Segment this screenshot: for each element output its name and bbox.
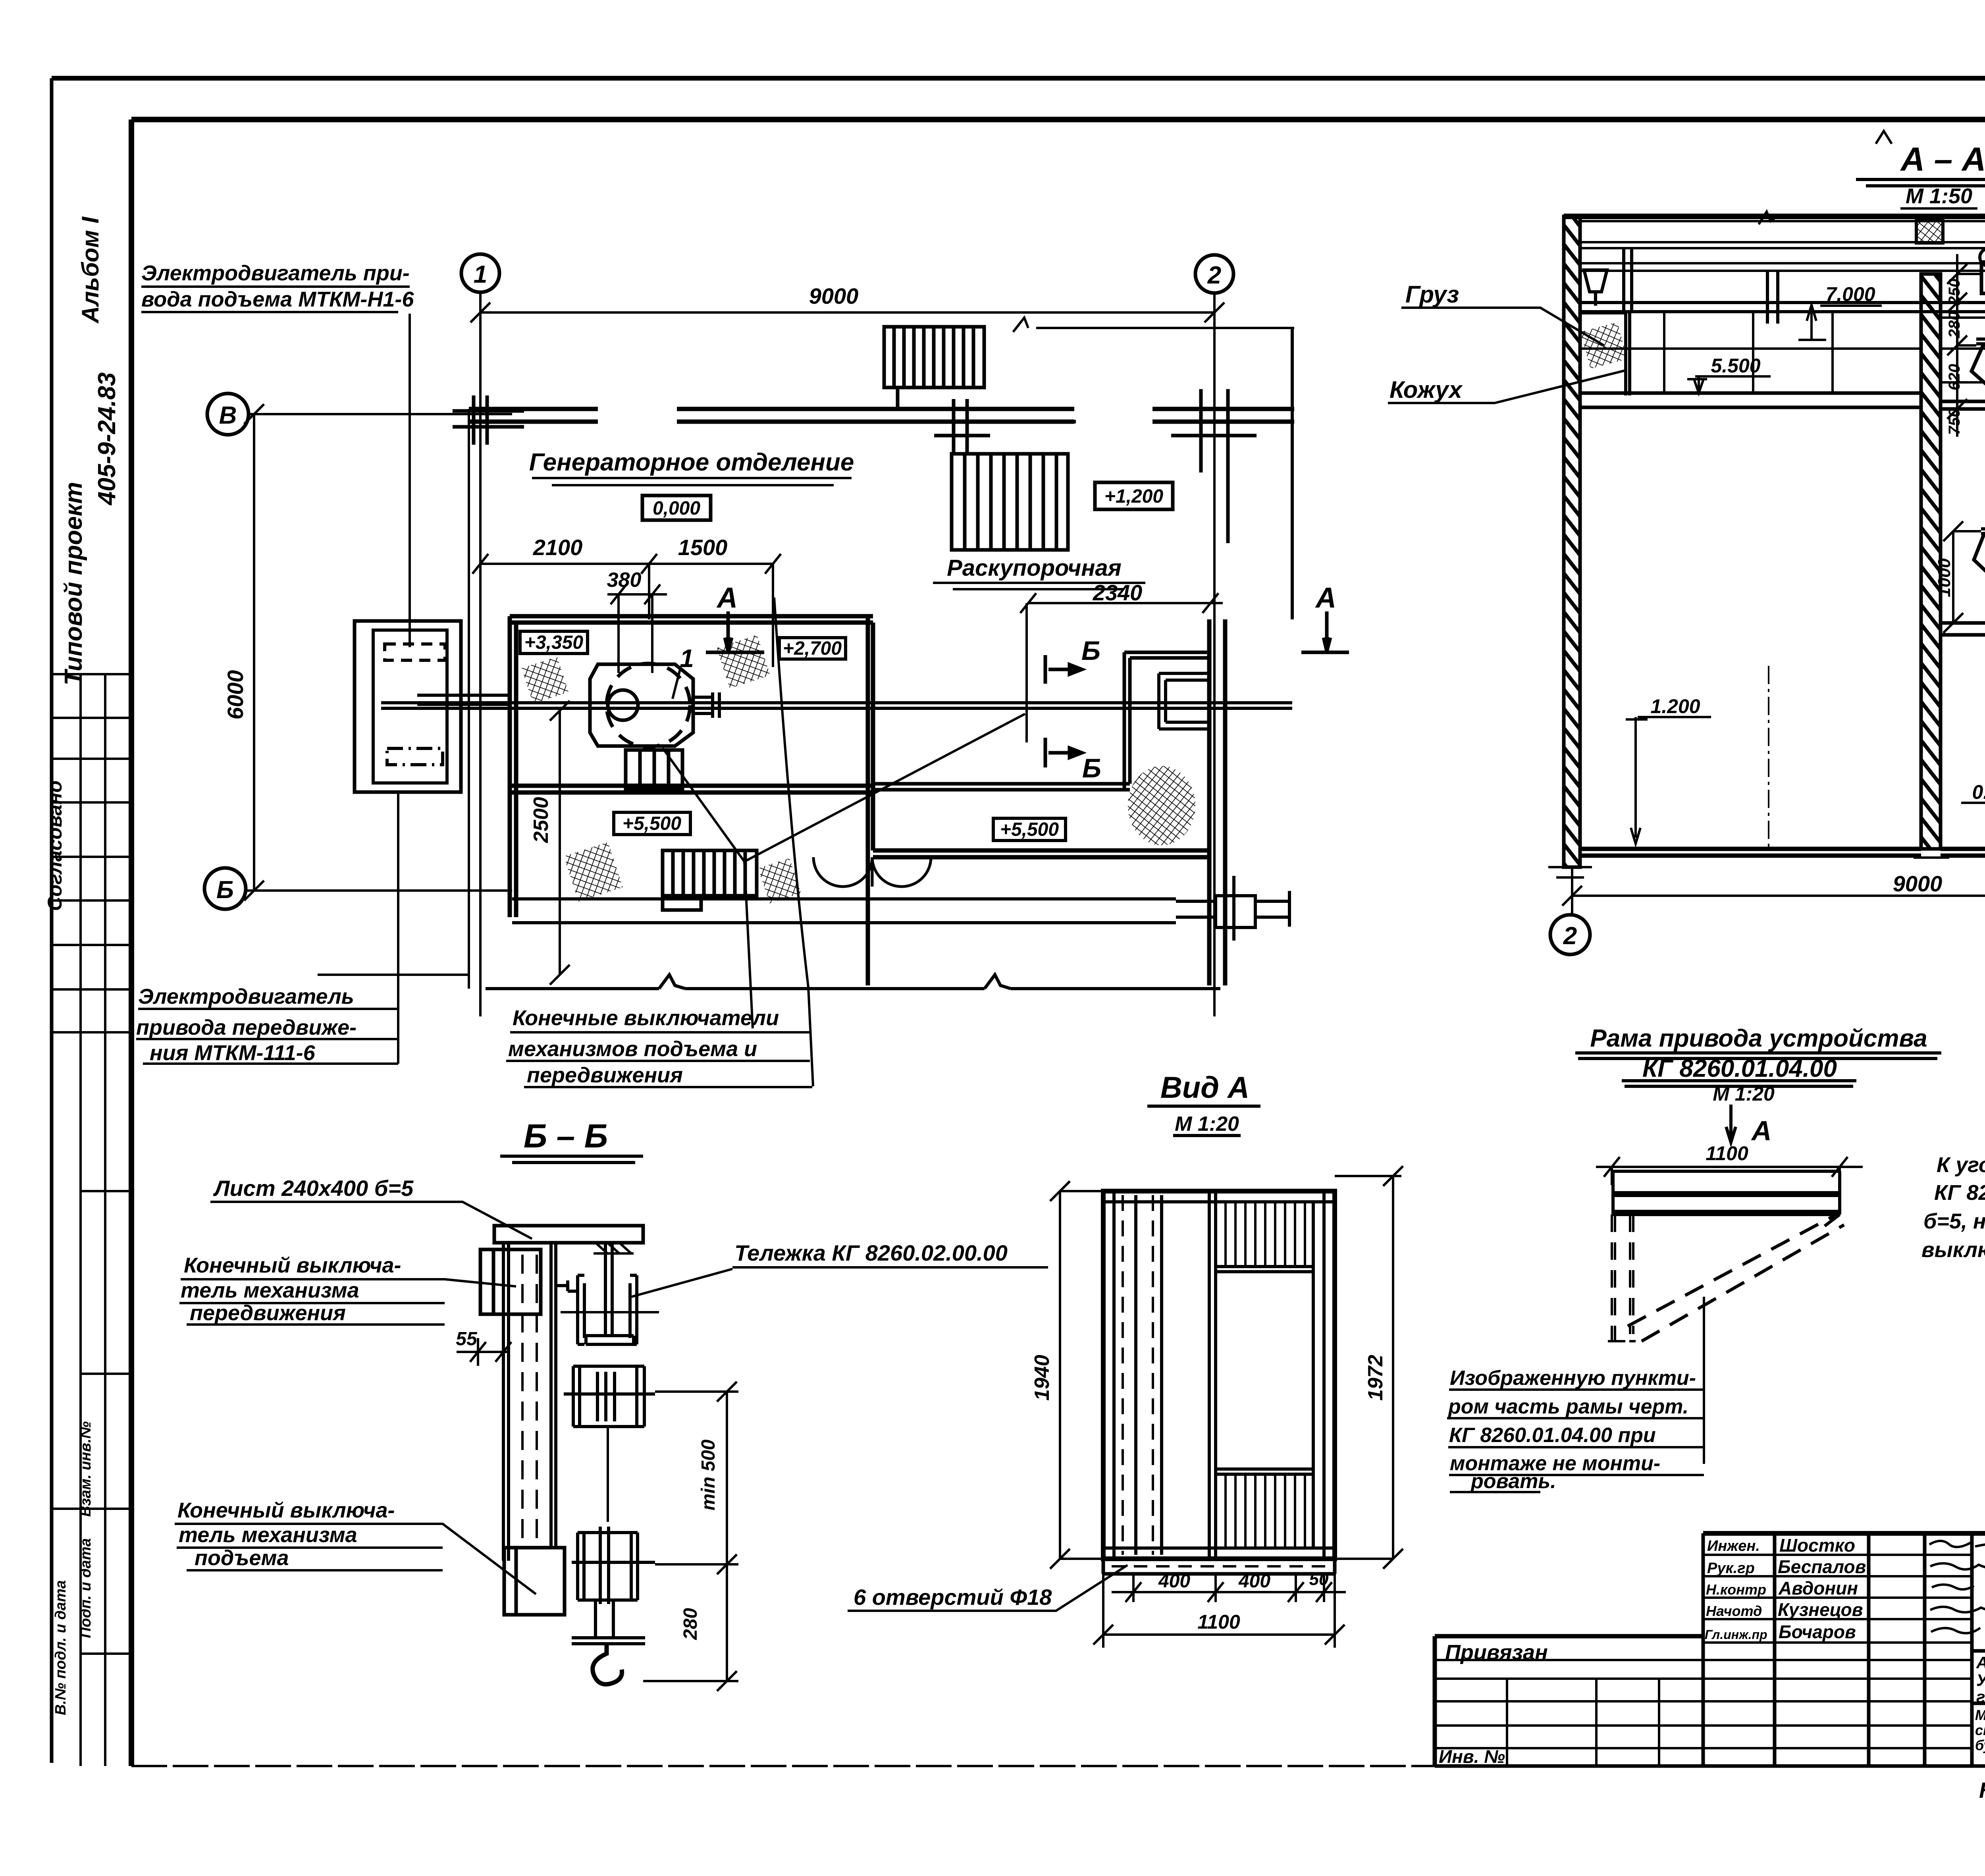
slab 5.500 <box>1580 393 1985 409</box>
generator room right wall <box>868 616 873 985</box>
signature squiggle 2 <box>1930 1563 1985 1569</box>
svg-text:Типовой проект: Типовой проект <box>60 482 87 686</box>
pipe through wall symbol <box>1176 876 1289 941</box>
svg-text:280: 280 <box>680 1608 701 1640</box>
bunker flange <box>1976 339 1985 344</box>
column symbol mid top wall <box>934 399 1076 453</box>
grid circle 1 <box>461 254 499 292</box>
hopper2 body <box>1974 534 1985 619</box>
svg-text:1100: 1100 <box>1197 1611 1240 1633</box>
roof pad over middle wall <box>1916 219 1943 243</box>
bottom plate dashes <box>1112 1565 1330 1568</box>
lower empty rows <box>1435 1660 1972 1748</box>
svg-text:Б – Б: Б – Б <box>524 1117 608 1155</box>
svg-text:Тележка КГ 8260.02.00.00: Тележка КГ 8260.02.00.00 <box>734 1240 1008 1265</box>
gruz box <box>1580 313 1630 395</box>
rama title underlines <box>1575 1053 1941 1086</box>
svg-text:б=5, на которых закрепить коне: б=5, на которых закрепить конечные <box>1923 1209 1985 1233</box>
signature squiggle 1 <box>1929 1541 1985 1548</box>
section mark А left <box>706 611 764 652</box>
leader telezhka <box>632 1269 732 1297</box>
svg-text:Вид А: Вид А <box>1160 1071 1249 1105</box>
leader to upper motor label <box>409 314 411 647</box>
niche in right room <box>1159 673 1210 729</box>
bracket diagonal braces dashed <box>1628 1216 1844 1341</box>
elevation +2,700 <box>779 638 846 659</box>
svg-text:50: 50 <box>1309 1569 1329 1589</box>
bunker body <box>1972 345 1985 433</box>
svg-text:М 1:20: М 1:20 <box>1175 1112 1239 1136</box>
right outer wall <box>1209 619 1225 985</box>
bracket left post dashed <box>1612 1215 1615 1341</box>
leaders to konechnye label <box>663 598 1025 1086</box>
frame horizontals <box>1103 1202 1335 1548</box>
grid line 1 <box>479 292 482 1016</box>
sidebar row lines <box>52 674 131 1654</box>
elevation +1,200 <box>1095 482 1173 509</box>
upper pulley block <box>564 1366 655 1427</box>
leader switch lower <box>175 1524 536 1594</box>
signature squiggle 3 <box>1932 1585 1974 1589</box>
grid line 2 <box>1213 293 1216 1016</box>
svg-text:405-9-24.83: 405-9-24.83 <box>93 372 121 506</box>
top band hatch bars <box>1226 1202 1305 1267</box>
machine solid circle <box>608 690 638 720</box>
svg-text:Альбом I: Альбом I <box>77 216 104 324</box>
svg-text:6 отверстий Ф18: 6 отверстий Ф18 <box>854 1585 1052 1610</box>
svg-text:Изображенную пункти-: Изображенную пункти- <box>1450 1367 1696 1390</box>
svg-text:Груз: Груз <box>1405 281 1459 308</box>
section mark Б lower <box>1045 738 1082 767</box>
frame outer <box>1103 1191 1335 1559</box>
sidebar column lines <box>81 674 105 1766</box>
signature table verticals <box>1703 1533 1972 1766</box>
floor lines <box>1580 849 1985 856</box>
svg-text:подъема: подъема <box>195 1546 289 1570</box>
svg-text:передвижения: передвижения <box>527 1063 683 1087</box>
vida header underline <box>1147 1106 1260 1136</box>
RAMA <box>1447 1053 1941 1492</box>
svg-text:9000: 9000 <box>1893 871 1943 896</box>
grate upper <box>884 327 984 409</box>
dim 2340 line <box>1020 593 1223 742</box>
svg-text:2500: 2500 <box>530 797 553 843</box>
dim 1972 <box>1335 1166 1403 1569</box>
svg-text:Ацетиленовая станция: Ацетиленовая станция <box>1976 1653 1985 1672</box>
svg-text:ровать.: ровать. <box>1470 1470 1556 1493</box>
section mark А right <box>1301 611 1349 652</box>
switch box lower <box>504 1548 565 1615</box>
dim 9000 line <box>470 303 1224 322</box>
grid circle Б <box>204 868 246 909</box>
svg-text:К уголкам каждой из трех рам ч: К уголкам каждой из трех рам черт. <box>1937 1153 1985 1177</box>
svg-text:Конечные выключатели: Конечные выключатели <box>513 1006 779 1030</box>
svg-text:А: А <box>716 582 738 614</box>
SIDEBAR <box>52 674 131 1766</box>
svg-text:1.200: 1.200 <box>1650 695 1700 717</box>
svg-text:750: 750 <box>1946 409 1963 435</box>
svg-text:Бочаров: Бочаров <box>1779 1621 1856 1642</box>
floor slab second <box>1941 623 1985 635</box>
grid row Б line <box>246 889 512 892</box>
grid circle В <box>207 393 249 435</box>
svg-text:Рама привода устройства: Рама привода устройства <box>1590 1025 1927 1052</box>
roof lines <box>1564 214 1985 219</box>
hatch patch genroom NE <box>717 635 770 688</box>
dim 7.000 arrow <box>1798 305 1882 340</box>
trolley wheel shaft <box>561 1311 659 1313</box>
drawing frame bottom <box>131 1765 1435 1767</box>
PLAN <box>204 254 1349 1086</box>
svg-text:ния МТКМ-111-6: ния МТКМ-111-6 <box>150 1041 316 1065</box>
dim 9000 section <box>1562 867 1985 919</box>
svg-text:Конечный выключа-: Конечный выключа- <box>177 1498 395 1522</box>
stair block in generator room <box>626 750 682 789</box>
svg-text:В.№ подл. и дата: В.№ подл. и дата <box>52 1580 69 1715</box>
svg-text:тель механизма: тель механизма <box>181 1278 359 1302</box>
svg-text:Электродвигатель: Электродвигатель <box>138 985 354 1008</box>
svg-text:Инв. №: Инв. № <box>1439 1746 1505 1767</box>
elevation +5,500 right <box>993 818 1066 841</box>
callout 1 tick <box>673 669 680 699</box>
title mid line <box>1972 1649 1985 1653</box>
motor box outer <box>355 621 461 792</box>
door swing arcs <box>813 857 931 887</box>
svg-text:Копировал Сабина: Копировал Сабина <box>1979 1778 1985 1803</box>
svg-text:380: 380 <box>607 569 642 592</box>
elevation +5,500 left <box>614 812 690 835</box>
plan right edge upper line <box>1291 327 1294 619</box>
leader 6 holes <box>848 1565 1127 1611</box>
grid row В line <box>249 413 512 415</box>
dim 5.500 arrow <box>1687 376 1771 393</box>
hatch patch genroom SW <box>564 842 622 902</box>
dim 2500 line <box>550 701 570 985</box>
vertical column tube <box>503 1243 556 1561</box>
motor dashed upper rect <box>385 644 445 660</box>
leader switch upper <box>179 1279 516 1325</box>
crane monorail <box>1580 303 1985 312</box>
svg-text:2100: 2100 <box>533 535 583 560</box>
svg-text:7.000: 7.000 <box>1825 283 1875 305</box>
svg-text:Авдонин: Авдонин <box>1778 1578 1858 1598</box>
svg-text:Согласовано: Согласовано <box>44 781 66 911</box>
svg-text:В: В <box>219 402 237 429</box>
top plate <box>494 1226 643 1243</box>
svg-text:А – А: А – А <box>1900 141 1985 178</box>
privyazan columns <box>1507 1679 1659 1766</box>
BB header underline <box>500 1156 643 1163</box>
plan left wall <box>510 616 516 917</box>
bottom band hatch bars <box>1226 1474 1305 1548</box>
sheet outer border top <box>52 76 1985 81</box>
SECTION-AA <box>1388 131 1985 1026</box>
leader from note <box>1703 1297 1705 1464</box>
svg-text:Электродвигатель при-: Электродвигатель при- <box>141 261 410 285</box>
svg-text:привода передвиже-: привода передвиже- <box>136 1016 357 1039</box>
svg-text:Б: Б <box>1081 636 1100 666</box>
motor box inner <box>373 630 447 783</box>
PRIM <box>1921 1100 1985 1262</box>
TITLEBLOCK <box>1435 1533 1985 1766</box>
view arrow A <box>1726 1105 1736 1142</box>
svg-text:Шостко: Шостко <box>1779 1535 1855 1556</box>
svg-text:механизмов подъема и: механизмов подъема и <box>508 1037 757 1061</box>
svg-text:Б: Б <box>1082 753 1101 783</box>
svg-text:400: 400 <box>1238 1571 1270 1592</box>
svg-text:Н.контр: Н.контр <box>1706 1581 1766 1598</box>
svg-text:КГ 8260.01.04.00 при: КГ 8260.01.04.00 при <box>1449 1424 1656 1447</box>
row В wall beams <box>469 409 1294 422</box>
svg-text:+2,700: +2,700 <box>783 638 842 659</box>
hatch patch raskup SE <box>1128 766 1195 845</box>
svg-text:2: 2 <box>1207 262 1221 289</box>
small chute at left wall <box>1584 270 1607 306</box>
hoist trolley <box>1981 262 1985 293</box>
row above bottom <box>1972 1702 1985 1705</box>
BB <box>175 1156 738 1691</box>
svg-text:ром часть рамы черт.: ром часть рамы черт. <box>1447 1395 1688 1418</box>
svg-text:Раскупорочная: Раскупорочная <box>947 555 1122 581</box>
svg-text:9000: 9000 <box>809 283 859 308</box>
frame inner verticals <box>1114 1191 1324 1559</box>
svg-text:1: 1 <box>680 644 694 673</box>
ground ticks left wall <box>1548 867 1592 877</box>
signature table rows <box>1703 1555 1972 1643</box>
svg-text:УАС-20г произв. 20 м³/ч: УАС-20г произв. 20 м³/ч <box>1976 1671 1985 1689</box>
svg-text:1000: 1000 <box>1935 558 1954 597</box>
plate hatch corner <box>594 1243 634 1253</box>
plan inner wall below machine <box>510 786 873 792</box>
column inner dashed <box>522 1255 537 1548</box>
svg-text:Лист 240х400 б=5: Лист 240х400 б=5 <box>213 1176 414 1201</box>
svg-text:2: 2 <box>1563 922 1577 950</box>
svg-text:Конечный выключа-: Конечный выключа- <box>184 1253 401 1277</box>
machine octagon body <box>590 664 693 746</box>
section title А-А <box>1856 179 1985 186</box>
dim chain at bunker <box>1947 254 1981 437</box>
switch box upper <box>480 1249 541 1314</box>
machine dashed circle <box>607 663 690 747</box>
svg-text:КГ 8260.01.04.00: КГ 8260.01.04.00 <box>1642 1055 1837 1082</box>
ground ticks mid wall <box>1914 856 1949 859</box>
svg-text:Рук.гр: Рук.гр <box>1707 1560 1755 1577</box>
svg-text:min 500: min 500 <box>698 1439 719 1510</box>
svg-text:1940: 1940 <box>1031 1355 1054 1401</box>
svg-text:газообразного ацетилена: газообразного ацетилена <box>1976 1687 1985 1706</box>
wall panels right <box>1941 274 1985 849</box>
leader list240 <box>210 1202 532 1239</box>
svg-text:Инжен.: Инжен. <box>1707 1538 1760 1554</box>
signature squiggle 5 <box>1931 1628 1980 1633</box>
I-beam web and flange <box>586 1243 634 1344</box>
machine shaft axis lines <box>381 703 1292 708</box>
elevation +3,350 <box>520 631 588 654</box>
elevation 0,000 <box>642 496 711 520</box>
section mark Б upper <box>1045 655 1082 684</box>
svg-text:передвижения: передвижения <box>190 1301 346 1325</box>
svg-text:1500: 1500 <box>678 535 728 560</box>
dim 1000 <box>1943 521 1981 633</box>
svg-text:бункера с карбидом каль-: бункера с карбидом каль- <box>1975 1737 1985 1753</box>
leader to lower motor label <box>397 792 399 1064</box>
dim 1100 <box>1093 1574 1345 1648</box>
svg-text:Привязан: Привязан <box>1445 1641 1548 1664</box>
svg-text:Кожух: Кожух <box>1389 376 1463 403</box>
raskuporochnaya south wall <box>873 850 1209 857</box>
raskuporochnaya inner wall <box>873 652 1209 790</box>
svg-text:0.000: 0.000 <box>1972 781 1985 803</box>
middle wall hatched <box>1921 274 1941 849</box>
hanger bars <box>1624 225 1985 325</box>
motor dash-dot lower rect <box>387 748 443 765</box>
dim 1940 <box>1050 1181 1103 1569</box>
axis line left room floor <box>1768 666 1769 849</box>
frame dashed verticals <box>1123 1195 1153 1555</box>
svg-text:+1,200: +1,200 <box>1104 486 1163 507</box>
wall panels left <box>1580 312 1921 393</box>
svg-text:вода подъема МТКМ-Н1-6: вода подъема МТКМ-Н1-6 <box>141 287 414 311</box>
connect rod box to column <box>556 1280 578 1291</box>
dim 6000 line <box>244 404 264 900</box>
hook plate <box>572 1600 645 1644</box>
svg-text:выключатели узла КГ 8260.04.00: выключатели узла КГ 8260.04.00.00 <box>1921 1238 1985 1262</box>
svg-text:КГ 8260-10-000 приварить листы: КГ 8260-10-000 приварить листы 240х400 <box>1934 1181 1985 1205</box>
svg-text:Подп. и дата: Подп. и дата <box>77 1538 94 1638</box>
svg-text:А: А <box>1315 582 1336 614</box>
dim 55 <box>457 1338 511 1366</box>
grid circle 2 <box>1195 255 1233 293</box>
corridor lines <box>512 899 1176 923</box>
svg-text:55: 55 <box>456 1328 478 1350</box>
svg-text:1972: 1972 <box>1364 1355 1387 1401</box>
svg-text:Начотд: Начотд <box>1706 1603 1762 1619</box>
left wall hatched <box>1564 216 1580 867</box>
svg-text:0,000: 0,000 <box>653 498 700 519</box>
svg-text:400: 400 <box>1158 1571 1190 1592</box>
VIDA <box>848 1106 1403 1648</box>
dim 1.200 arrow <box>1626 717 1711 844</box>
svg-text:250: 250 <box>1946 279 1963 306</box>
svg-text:М 1:50: М 1:50 <box>1906 184 1972 208</box>
svg-text:6000: 6000 <box>223 670 248 720</box>
plan bottom boundary with breaks <box>486 975 1220 989</box>
grate lower <box>952 454 1068 550</box>
title block top edge <box>1703 1531 1985 1536</box>
dim 0.000 arrow <box>1961 803 1985 847</box>
bracket beam <box>1613 1171 1840 1226</box>
svg-text:5.500: 5.500 <box>1711 355 1760 377</box>
svg-text:2340: 2340 <box>1093 580 1143 605</box>
dim 2100-1500 line <box>472 554 781 667</box>
svg-text:тель механизма: тель механизма <box>179 1523 357 1547</box>
svg-text:620: 620 <box>1946 364 1963 391</box>
lower stair grate <box>663 850 757 910</box>
lower pulley block <box>572 1527 655 1604</box>
dim 380 line <box>607 584 667 673</box>
cable <box>607 1427 609 1522</box>
svg-text:1100: 1100 <box>1706 1142 1748 1165</box>
hatch patch genroom NW <box>522 657 569 704</box>
svg-text:+5,500: +5,500 <box>622 813 681 834</box>
gruz hatch <box>1580 322 1627 369</box>
svg-text:1: 1 <box>474 261 487 288</box>
svg-text:280: 280 <box>1946 312 1963 339</box>
dim chain right <box>643 1382 738 1691</box>
sheet outer border left <box>50 78 54 1763</box>
svg-text:М 1:20: М 1:20 <box>1713 1083 1775 1105</box>
svg-text:Взам. инв.№: Взам. инв.№ <box>77 1421 94 1517</box>
leader kozhuh <box>1388 370 1627 403</box>
hook <box>593 1644 622 1684</box>
roof break marks <box>1759 212 1985 224</box>
bottom plate <box>1103 1559 1335 1574</box>
svg-text:А: А <box>1751 1115 1772 1146</box>
svg-text:Гл.инж.пр: Гл.инж.пр <box>1705 1627 1767 1642</box>
building west edge line <box>318 409 469 989</box>
svg-text:Беспалов: Беспалов <box>1778 1556 1866 1577</box>
svg-text:+3,350: +3,350 <box>524 632 583 653</box>
svg-text:ства для транспортировки: ства для транспортировки <box>1975 1722 1985 1738</box>
column symbol at 2-В <box>1171 389 1257 543</box>
upper aux line with break <box>1013 318 1294 332</box>
signature squiggle 4 <box>1930 1607 1985 1612</box>
trolley wheels side plates <box>578 1275 637 1344</box>
hatch patch corridor <box>758 858 801 903</box>
dim 1100 rama <box>1596 1157 1863 1185</box>
svg-text:Б: Б <box>216 876 234 904</box>
leader gruz <box>1401 308 1604 345</box>
privyazan box <box>1435 1636 1703 1766</box>
hopper2 flange <box>1981 529 1985 534</box>
circle 2 section <box>1550 915 1590 954</box>
svg-text:Генераторное отделение: Генераторное отделение <box>529 449 854 476</box>
svg-text:+5,500: +5,500 <box>1000 819 1059 840</box>
machine coupling <box>693 692 719 718</box>
dim 400 400 50 <box>1112 1574 1346 1602</box>
note underlines <box>1447 1390 1704 1492</box>
motor shaft <box>417 695 510 704</box>
svg-text:Монтажный чертеж устрой-: Монтажный чертеж устрой- <box>1975 1707 1985 1723</box>
svg-text:Кузнецов: Кузнецов <box>1778 1599 1863 1620</box>
plan top wall <box>510 616 873 623</box>
column symbol at 1-В <box>453 395 524 445</box>
